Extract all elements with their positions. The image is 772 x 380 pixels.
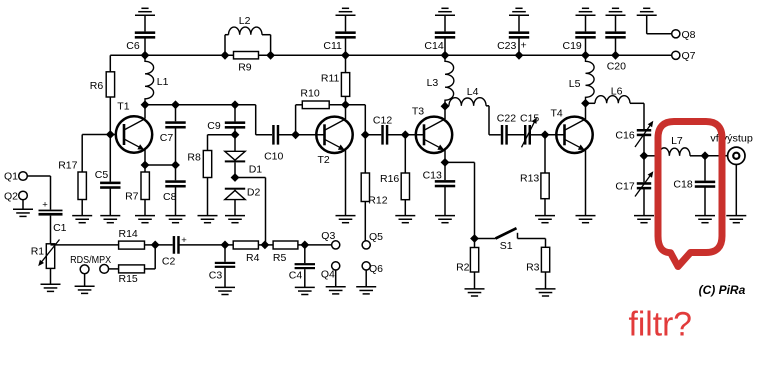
svg-text:T4: T4 [551, 107, 563, 119]
svg-text:L7: L7 [671, 135, 683, 147]
wire top supply rail [110, 54, 671, 56]
inductor L1 [145, 55, 154, 105]
ground (inverted) above C14 [435, 8, 455, 15]
svg-text:R6: R6 [90, 80, 104, 92]
capacitor C12 [365, 125, 405, 145]
wire collector to C12 node [346, 105, 366, 135]
svg-text:C2: C2 [162, 256, 176, 268]
wire T4 base lead [545, 134, 565, 136]
label R12 [368, 194, 387, 206]
svg-text:L2: L2 [239, 15, 251, 27]
transistor T4 [556, 117, 592, 153]
label C13 [423, 169, 442, 181]
svg-text:Q5: Q5 [369, 231, 383, 243]
wire T4 emitter to ground [585, 150, 587, 216]
node C7-C8 [171, 161, 180, 170]
label Q3 [321, 230, 335, 242]
node T1 emitter [141, 161, 150, 170]
ground under RF output [726, 216, 746, 223]
svg-text:Q6: Q6 [369, 263, 383, 275]
svg-text:R1: R1 [31, 246, 45, 258]
wire emitter row [145, 164, 176, 166]
label T3 [412, 106, 424, 118]
transistor T1 [116, 116, 152, 152]
node T1 base [106, 130, 115, 139]
node R5-C4 [300, 241, 309, 250]
resistor R16 [401, 135, 409, 216]
label C19 [563, 40, 582, 52]
svg-text:C15: C15 [520, 112, 539, 124]
transistor T3 [416, 117, 452, 153]
svg-text:R3: R3 [526, 262, 540, 274]
terminal Q7 [672, 51, 680, 59]
node rail-C20 [611, 51, 620, 60]
terminal Q8 [672, 30, 680, 38]
svg-text:D1: D1 [249, 164, 263, 176]
label C11 [323, 40, 342, 52]
terminal Q6 [362, 262, 370, 270]
svg-text:C14: C14 [424, 40, 443, 52]
svg-text:R16: R16 [380, 173, 399, 185]
ground under C4 [295, 287, 315, 294]
ground under Q4 [326, 287, 346, 294]
svg-text:+: + [521, 39, 527, 51]
svg-text:D2: D2 [247, 187, 261, 199]
resistor R17 [78, 135, 86, 216]
wire T3 emitter to S1 [445, 162, 475, 238]
label R13 [520, 172, 539, 184]
svg-text:C20: C20 [607, 61, 626, 73]
node C12 left [361, 130, 370, 139]
resistor R9 [234, 52, 259, 59]
wire R1 to ground [50, 268, 52, 284]
svg-text:C11: C11 [323, 40, 342, 52]
node rail L2R9 right [266, 51, 275, 60]
capacitor C13 [435, 162, 455, 215]
label C16 [615, 130, 634, 142]
label C17 [615, 180, 634, 192]
svg-text:C1: C1 [53, 222, 67, 234]
label R11 [321, 73, 340, 85]
terminal Q1 [19, 172, 28, 181]
label R10 [300, 88, 319, 100]
label vf vystup [710, 133, 753, 145]
node rail-C6 [141, 51, 150, 60]
ground under C5 [100, 216, 120, 223]
ground under C18 [695, 216, 715, 223]
node rail L2R9 left [221, 51, 230, 60]
wire C10 to T2 base [279, 134, 296, 136]
label C2 [162, 256, 176, 268]
label C9 [207, 120, 221, 132]
label R2 [456, 262, 470, 274]
svg-text:C13: C13 [423, 169, 442, 181]
resistor R4 [225, 241, 258, 249]
ground under R17 [72, 216, 92, 223]
resistor R7 [141, 165, 149, 216]
node L7-C18 [701, 151, 710, 160]
svg-text:Q8: Q8 [682, 29, 696, 41]
label L3 [427, 77, 439, 89]
inductor L2 [225, 27, 271, 55]
svg-text:C19: C19 [563, 40, 582, 52]
node rail-C19 [581, 51, 590, 60]
wire base to R17 [82, 134, 110, 136]
svg-text:Q4: Q4 [321, 269, 335, 281]
label L4 [467, 86, 479, 98]
label T4 [551, 107, 563, 119]
capacitor C6 [135, 15, 155, 55]
RF output connector vf vystup [728, 147, 745, 216]
ground under R16 [395, 216, 415, 223]
label Q2 [4, 191, 18, 203]
capacitor C20 [605, 15, 625, 55]
capacitor C16 (trimmer) [635, 121, 653, 156]
label R1 [31, 246, 45, 258]
label R16 [380, 173, 399, 185]
svg-text:R9: R9 [238, 61, 252, 73]
ground under Q6 [356, 287, 376, 294]
ground (inverted) above C11 [336, 8, 356, 15]
diode D1 (varicap) [225, 135, 245, 178]
svg-text:S1: S1 [500, 240, 513, 252]
wire T1 collector [144, 105, 146, 119]
capacitor C9 [225, 105, 245, 135]
capacitor C23 (electrolytic) [509, 15, 529, 55]
wire T1 base [110, 134, 124, 136]
resistor R3 [541, 239, 549, 289]
resistor R10 [296, 101, 346, 135]
wire C22-C15 [508, 134, 525, 136]
terminal Q4 [332, 262, 340, 270]
svg-text:L6: L6 [611, 86, 623, 98]
capacitor C18 [695, 156, 715, 216]
capacitor C2 (electrolytic) [155, 236, 225, 254]
wire R1 wiper to R14 [51, 244, 119, 246]
ground under Q2 [13, 209, 33, 216]
label L1 [157, 76, 169, 88]
terminal Q3 [332, 241, 340, 249]
node D1-D2 [231, 173, 240, 182]
label L6 [611, 86, 623, 98]
label S1 [500, 240, 513, 252]
node R4-R5 varicap feed [258, 241, 273, 250]
label C14 [424, 40, 443, 52]
ground under T4 [576, 216, 596, 223]
label (C) PiRa [699, 283, 746, 297]
wire tank top row [145, 104, 256, 106]
node C9 bottom [231, 130, 240, 139]
label Q6 [369, 263, 383, 275]
svg-text:R7: R7 [125, 191, 139, 203]
svg-text:C6: C6 [126, 40, 140, 52]
ground under R13 [535, 216, 555, 223]
svg-text:Q3: Q3 [321, 230, 335, 242]
label T1 [117, 101, 129, 113]
resistor R5 [273, 241, 305, 249]
wire T1 emitter [144, 150, 146, 165]
label C7 [160, 132, 174, 144]
wire to RF output [705, 155, 728, 157]
inductor L5 [586, 55, 595, 103]
label C22 [497, 112, 516, 124]
capacitor C10 [272, 125, 279, 145]
svg-text:L5: L5 [569, 78, 581, 90]
resistor R12 [361, 135, 369, 241]
label C10 [264, 150, 283, 162]
label Q7 [682, 50, 696, 62]
node T3 emitter [441, 158, 450, 167]
wire T4 collector [585, 103, 587, 119]
svg-text:C16: C16 [615, 130, 634, 142]
label R4 [246, 252, 260, 264]
label L5 [569, 78, 581, 90]
ground under D2 [225, 216, 245, 223]
label R17 [58, 160, 77, 172]
inductor L4 [449, 98, 501, 135]
svg-text:R17: R17 [58, 160, 77, 172]
svg-text:C3: C3 [209, 269, 223, 281]
node S1-R2 [470, 234, 479, 243]
label C23 [497, 39, 527, 52]
svg-text:T3: T3 [412, 106, 424, 118]
wire varicap junction right [235, 178, 266, 245]
inductor L3 [445, 55, 454, 106]
wire tank to C10 [256, 105, 272, 135]
resistor R14 [119, 241, 145, 249]
label filtr? (red) [629, 306, 693, 344]
resistor R2 [470, 239, 478, 289]
label Q8 [682, 29, 696, 41]
label C15 [520, 112, 539, 124]
label R5 [273, 252, 287, 264]
node R14-R15-C2 [151, 241, 160, 250]
diode D2 (varicap) [225, 188, 245, 216]
node rail-C14 [441, 51, 450, 60]
label R7 [125, 191, 139, 203]
node T2 collector [341, 100, 350, 109]
wire Q1 to C1 [27, 176, 50, 210]
svg-text:C10: C10 [264, 150, 283, 162]
svg-text:L3: L3 [427, 77, 439, 89]
ground under R8 [198, 216, 218, 223]
ground (inverted) above C6 [135, 8, 155, 15]
node rail-C23 [515, 51, 524, 60]
wire rail drop to R6 [109, 55, 111, 72]
label R8 [187, 152, 201, 164]
capacitor C19 [575, 15, 595, 55]
wire T2 emitter to ground [345, 150, 347, 216]
label R14 [119, 228, 138, 240]
svg-text:vf výstup: vf výstup [710, 133, 753, 145]
wire T3 emitter [444, 150, 446, 162]
wire node to switch pivot [475, 238, 496, 240]
wire RDS to ground [84, 274, 86, 287]
node C2-C3-R4 [221, 241, 230, 250]
svg-text:R10: R10 [300, 88, 319, 100]
svg-text:T1: T1 [117, 101, 129, 113]
svg-text:C18: C18 [673, 179, 692, 191]
wire R6 to T1 base [109, 97, 111, 135]
transistor T2 [316, 117, 352, 153]
svg-text:R8: R8 [187, 152, 201, 164]
label C1 [53, 222, 67, 234]
svg-text:Q1: Q1 [4, 171, 18, 183]
ground under C17 [634, 216, 654, 223]
svg-text:C22: C22 [497, 112, 516, 124]
node C9 top [231, 100, 240, 109]
label RDS/MPX [70, 254, 111, 266]
node rail-C11 [341, 51, 350, 60]
capacitor C5 [100, 135, 120, 216]
wire T2 collector [345, 105, 347, 119]
label Q4 [321, 269, 335, 281]
svg-text:Q7: Q7 [682, 50, 696, 62]
ground under T2 [336, 216, 356, 223]
capacitor C4 [295, 245, 315, 288]
svg-text:C9: C9 [207, 120, 221, 132]
label C6 [126, 40, 140, 52]
svg-text:L4: L4 [467, 86, 479, 98]
label R6 [90, 80, 104, 92]
label C1 plus [42, 199, 48, 210]
ground under R7 [135, 216, 155, 223]
node T1 collector [141, 100, 150, 109]
capacitor C17 (trimmer) [635, 156, 653, 216]
ground (inverted) above C19 [576, 8, 596, 15]
ground under R2 [465, 289, 485, 296]
svg-text:L1: L1 [157, 76, 169, 88]
capacitor C14 [435, 15, 455, 55]
wire Q2 to ground [22, 200, 24, 210]
svg-text:C7: C7 [160, 132, 174, 144]
node C7 top [171, 100, 180, 109]
capacitor C7 [165, 105, 185, 165]
wire ground to Q8 [647, 15, 672, 34]
svg-text:+: + [42, 199, 48, 210]
ground (inverted) above Q8 [637, 8, 657, 15]
capacitor C15 (trimmer) [522, 117, 537, 147]
svg-text:R15: R15 [119, 273, 138, 285]
capacitor C8 [165, 165, 185, 216]
label L2 [239, 15, 251, 27]
label Q5 [369, 231, 383, 243]
capacitor C11 [335, 15, 355, 55]
node T2 base [291, 130, 300, 139]
svg-text:R11: R11 [321, 73, 340, 85]
svg-text:C8: C8 [163, 191, 177, 203]
node T4 base [541, 130, 550, 139]
resistor R8 [203, 135, 235, 216]
resistor R15 [109, 245, 156, 273]
ground (inverted) above C23 [509, 8, 529, 15]
label R9 [238, 61, 252, 73]
svg-text:C17: C17 [615, 180, 634, 192]
svg-text:C12: C12 [373, 114, 392, 126]
node T4 collector [581, 99, 590, 108]
inductor L6 [586, 96, 645, 129]
capacitor C3 [215, 245, 235, 288]
red callout bubble around L7/C18 [658, 122, 722, 267]
svg-text:(C) PiRa: (C) PiRa [699, 283, 746, 297]
terminal RDS/MPX left [80, 265, 89, 274]
resistor R11 [341, 55, 349, 105]
label C18 [673, 179, 692, 191]
label C8 [163, 191, 177, 203]
label D1 [249, 164, 263, 176]
label C12 [373, 114, 392, 126]
label C4 [289, 269, 303, 281]
terminal Q2 [19, 191, 28, 200]
node T3 base [401, 130, 410, 139]
ground under R1 [41, 284, 61, 291]
svg-text:R12: R12 [368, 194, 387, 206]
inductor L7 [644, 148, 705, 156]
label D2 [247, 187, 261, 199]
label T2 [318, 154, 330, 166]
label Q1 [4, 171, 18, 183]
capacitor C22 [501, 125, 508, 145]
svg-text:R4: R4 [246, 252, 260, 264]
potentiometer R1 [38, 240, 59, 269]
wire T2 base lead [296, 134, 325, 136]
wire C15 to T4 base [531, 134, 545, 136]
svg-text:filtr?: filtr? [629, 306, 693, 344]
label C3 [209, 269, 223, 281]
ground under C13 [435, 216, 455, 223]
svg-text:Q2: Q2 [4, 191, 18, 203]
ground under RDS/MPX [75, 286, 95, 293]
terminal Q5 [362, 241, 370, 249]
svg-text:R5: R5 [273, 252, 287, 264]
svg-text:R2: R2 [456, 262, 470, 274]
label C5 [95, 169, 109, 181]
terminal RDS/MPX right [100, 265, 109, 274]
label L7 [671, 135, 683, 147]
resistor R13 [541, 135, 549, 216]
wire T3 base lead [405, 134, 424, 136]
wire T3 collector [444, 106, 446, 119]
wire R14 to node [145, 244, 156, 246]
svg-text:C4: C4 [289, 269, 303, 281]
resistor R6 [106, 72, 114, 97]
node T3 collector [441, 102, 450, 111]
svg-text:R13: R13 [520, 172, 539, 184]
ground under C8 [166, 216, 186, 223]
wire Q4 to ground [335, 270, 337, 287]
node C16-C17-L7 [640, 151, 649, 160]
label C20 [607, 61, 626, 73]
svg-text:R14: R14 [119, 228, 138, 240]
wire to Q3 [305, 244, 332, 246]
capacitor C1 (electrolytic) [39, 210, 63, 244]
wire Q6 to ground [365, 270, 367, 287]
label R3 [526, 262, 540, 274]
ground (inverted) above C20 [606, 8, 626, 15]
svg-text:+: + [181, 235, 187, 246]
svg-text:T2: T2 [318, 154, 330, 166]
svg-text:C23: C23 [497, 40, 516, 52]
ground under R3 [536, 289, 556, 296]
switch S1 [496, 228, 546, 238]
ground under C3 [215, 287, 235, 294]
label R15 [119, 273, 138, 285]
label C2 plus [181, 235, 187, 246]
svg-text:C5: C5 [95, 169, 109, 181]
